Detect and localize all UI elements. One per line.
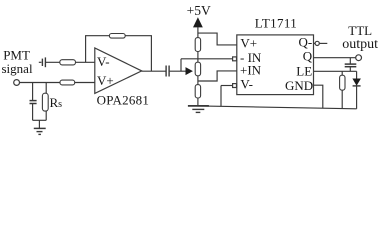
- svg-text:GND: GND: [285, 78, 313, 93]
- svg-text:+5V: +5V: [187, 3, 211, 18]
- svg-text:signal: signal: [2, 61, 33, 76]
- svg-text:LE: LE: [296, 63, 312, 78]
- svg-text:+IN: +IN: [240, 63, 262, 78]
- svg-text:output: output: [342, 37, 378, 52]
- svg-text:V+: V+: [97, 73, 114, 88]
- svg-text:V-: V-: [240, 76, 253, 91]
- svg-text:LT1711: LT1711: [255, 16, 297, 31]
- svg-text:Q: Q: [303, 49, 313, 64]
- svg-text:V+: V+: [240, 36, 257, 51]
- svg-text:TTL: TTL: [348, 23, 372, 38]
- svg-text:OPA2681: OPA2681: [97, 92, 150, 107]
- svg-text:Q-: Q-: [298, 34, 312, 49]
- svg-text:V-: V-: [97, 54, 110, 69]
- svg-text:Rs: Rs: [50, 95, 63, 110]
